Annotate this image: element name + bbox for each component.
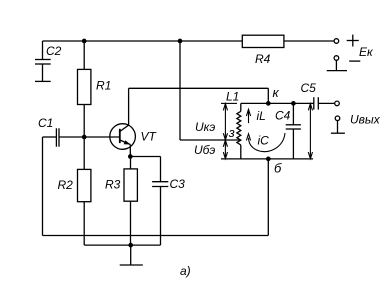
dimension line Uke/Ube bbox=[221, 103, 237, 158]
terminal C5 out bbox=[335, 101, 340, 106]
inductor L1 bbox=[237, 103, 241, 158]
svg-text:C4: C4 bbox=[275, 109, 291, 123]
svg-text:R1: R1 bbox=[96, 79, 111, 93]
svg-text:з: з bbox=[228, 125, 235, 140]
wire left drop from C1 bbox=[42, 137, 44, 236]
svg-text:а): а) bbox=[180, 264, 191, 278]
resistor R4 bbox=[242, 35, 284, 47]
ground bar Uout bbox=[331, 121, 345, 134]
svg-text:iL: iL bbox=[257, 109, 266, 123]
wire tank top bbox=[241, 102, 314, 104]
node rail-R1 bbox=[82, 39, 87, 44]
resistor R1 bbox=[78, 41, 91, 137]
terminal Uout bbox=[335, 116, 340, 121]
wire collector bbox=[129, 88, 269, 124]
minus sign bbox=[349, 60, 360, 62]
capacitor C5 bbox=[314, 97, 335, 109]
svg-text:к: к bbox=[273, 85, 280, 100]
svg-text:R3: R3 bbox=[105, 178, 121, 192]
svg-text:R2: R2 bbox=[58, 178, 74, 192]
wire rail B ground bbox=[84, 244, 160, 246]
terminal + Ek bbox=[334, 39, 339, 44]
terminal - Ek bbox=[334, 56, 339, 61]
svg-text:Uкэ: Uкэ bbox=[195, 120, 215, 134]
wire base lead bbox=[84, 136, 120, 138]
svg-text:б: б bbox=[274, 161, 282, 176]
svg-text:VT: VT bbox=[141, 130, 158, 144]
transistor VT bbox=[110, 124, 136, 157]
node ground bbox=[128, 243, 133, 248]
svg-text:C2: C2 bbox=[46, 44, 62, 58]
svg-text:R4: R4 bbox=[255, 52, 271, 66]
svg-text:Uвых: Uвых bbox=[350, 113, 381, 127]
capacitor C3 bbox=[152, 157, 168, 246]
arrow iC bbox=[246, 133, 285, 152]
capacitor C4 bbox=[286, 103, 301, 158]
wire tap horizontal bbox=[180, 139, 240, 141]
wire top rail right bbox=[284, 40, 334, 42]
node k bbox=[266, 101, 271, 106]
capacitor C2 bbox=[35, 41, 51, 81]
wire top rail left bbox=[43, 40, 243, 42]
node rail-tap bbox=[178, 39, 183, 44]
node base bbox=[82, 135, 87, 140]
ground bar Ek bbox=[327, 60, 347, 70]
svg-text:C1: C1 bbox=[38, 116, 53, 130]
svg-text:L1: L1 bbox=[226, 90, 239, 104]
emitter arrow bbox=[124, 140, 131, 144]
plus sign bbox=[347, 35, 359, 47]
arrow iL bbox=[246, 109, 250, 123]
resistor R3 bbox=[124, 157, 137, 246]
dimension line Uout tank bbox=[308, 103, 312, 158]
ground bbox=[120, 245, 143, 265]
svg-text:iC: iC bbox=[258, 134, 270, 148]
svg-text:Ек: Ек bbox=[359, 45, 374, 59]
wire b drop bbox=[267, 159, 269, 236]
wire drop to coil tap bbox=[179, 41, 181, 140]
resistor R2 bbox=[78, 137, 91, 245]
wire tank bottom bbox=[221, 158, 313, 160]
svg-text:Uбэ: Uбэ bbox=[194, 143, 215, 157]
node C4 top bbox=[291, 101, 296, 106]
node b bbox=[266, 157, 271, 162]
capacitor C1 bbox=[43, 128, 85, 146]
svg-text:C3: C3 bbox=[170, 177, 186, 191]
wire rail A base return bbox=[43, 235, 269, 237]
wire emitter row bbox=[130, 156, 160, 158]
svg-text:C5: C5 bbox=[301, 81, 317, 95]
node emitter bbox=[128, 154, 133, 159]
